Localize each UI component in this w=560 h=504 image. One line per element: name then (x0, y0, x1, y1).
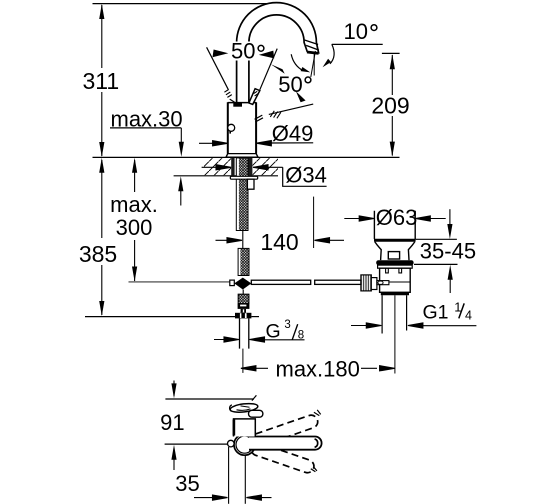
body bottom thick bar (381, 292, 409, 295)
dim 209 arrow up (390, 54, 395, 69)
max.30 lower leader tail (180, 190, 182, 206)
upper dashed swung spout (249, 413, 319, 448)
countertop bottom line (174, 175, 278, 177)
dim max300 arrow up (132, 158, 137, 173)
lever tip extension line (165, 398, 254, 400)
max.30 leader down (180, 128, 182, 145)
rod clamp diamond (234, 278, 251, 290)
tailpipe right wall (406, 295, 408, 330)
lever angle left arrowhead (213, 50, 229, 58)
dim G1-1/4 slash (459, 303, 464, 318)
shank washer bar right (248, 158, 252, 177)
shank knurl texture (239, 158, 248, 231)
temperature knob circle on body (228, 124, 235, 131)
dim O34 leader jog (283, 167, 327, 186)
dim O49 arrow right (256, 141, 313, 146)
nut slit 2 (245, 313, 247, 318)
svg-text:311: 311 (82, 68, 119, 94)
spout gooseneck outline (237, 3, 319, 102)
svg-text:35-45: 35-45 (420, 238, 476, 263)
spout cap inner line (315, 439, 318, 447)
lever joint black tab (233, 102, 242, 106)
dim O49 arrow left (199, 141, 228, 146)
degree circle (305, 77, 311, 83)
G3/8 nut (235, 313, 251, 319)
aerator band line 1 (305, 40, 319, 45)
dim G1-1/4 arrow left (351, 323, 381, 328)
waste cup bottom thick bar (374, 239, 416, 242)
degree circle (371, 25, 377, 31)
max.30 arrow up below counter (178, 176, 183, 191)
10deg left arc (291, 54, 303, 70)
aerator band line 2 (306, 45, 319, 50)
funnel right side (408, 242, 414, 260)
hose end datum stub right (252, 316, 260, 318)
body base flange (226, 154, 258, 158)
dim 35-45 line lower (449, 278, 451, 293)
dim 35 arrow right (246, 495, 271, 500)
pop-up guide tab (247, 179, 254, 189)
knob lower tick (229, 131, 231, 133)
label max.30 underline (110, 127, 181, 129)
svg-text:3: 3 (284, 319, 290, 331)
lever left hatch dashes (224, 89, 231, 97)
lower tip hatch marks (311, 467, 317, 472)
dim 311 arrow down (99, 142, 104, 157)
lever angle right arrowhead (259, 51, 274, 59)
dim 91 upper line (173, 381, 175, 397)
countertop hatch right block (253, 158, 278, 175)
body mid line (380, 281, 411, 283)
top datum line at spout apex (93, 3, 267, 5)
body notch left (386, 268, 389, 273)
dim G3/8 arrow left (214, 337, 239, 342)
hose stem slot (243, 309, 244, 312)
dim 209 line (391, 55, 393, 156)
nut slit 1 (240, 313, 242, 318)
outlet extension line (313, 197, 315, 248)
dim 35-45 arrow up (448, 265, 453, 280)
dim 209 arrow down (390, 142, 395, 157)
dim max180 arrow left (241, 366, 268, 371)
dim G3/8 arrow right (250, 337, 305, 342)
dim 140 arrow right (315, 238, 345, 243)
dim O34 arrow left (202, 165, 231, 170)
svg-text:max.: max. (110, 192, 158, 217)
lever cap left tab (230, 405, 232, 411)
max.30 arrow down (179, 142, 184, 157)
dim 311 line (101, 5, 103, 156)
svg-text:4: 4 (465, 308, 472, 322)
10deg left arc arrowhead (301, 67, 311, 72)
dim max300 line (134, 160, 136, 281)
spout break dashes (255, 115, 263, 122)
lever left line lower dash (230, 99, 235, 102)
svg-text:G: G (266, 321, 281, 343)
rod level extension line (129, 281, 230, 283)
hose clamp slot (240, 305, 246, 307)
dim 209 top tick (382, 52, 400, 54)
dim 385 line (101, 160, 103, 315)
dim 140 arrow left (216, 238, 243, 243)
svg-text:max.180: max.180 (276, 357, 360, 382)
dim 311 arrow up (99, 4, 104, 19)
plan body rect (234, 419, 256, 437)
body notch right (399, 268, 402, 273)
dim 35 arrow left (194, 495, 228, 500)
svg-text:8: 8 (298, 330, 304, 342)
outlet tilted line (311, 51, 316, 77)
svg-text:140: 140 (260, 229, 298, 255)
dim 91 lower tail (173, 458, 175, 470)
spout axis extension line (165, 443, 228, 445)
hose stem (241, 309, 246, 313)
shank washer bar left (231, 158, 234, 176)
swivel line hatch dashes (270, 111, 281, 119)
dim 35 left extension (228, 447, 230, 504)
dim 35 right extension (244, 455, 246, 503)
lever cap inner line (237, 409, 251, 410)
swivel lower arrowhead (296, 91, 306, 102)
dim 91 arrow up from below (171, 445, 176, 460)
svg-text:50: 50 (278, 72, 302, 97)
dim 35-45 line upper (449, 209, 451, 226)
svg-text:91: 91 (160, 410, 184, 435)
pop-up pin (388, 252, 399, 259)
10deg right arc arrowhead (323, 59, 331, 67)
flange underside band (378, 265, 413, 268)
drain body (380, 268, 411, 292)
pop-up rod upper (242, 231, 244, 249)
svg-text:Ø63: Ø63 (376, 205, 418, 230)
svg-text:Ø34: Ø34 (285, 163, 327, 188)
label clearance box (230, 42, 266, 61)
50 lever angle left line (207, 47, 229, 89)
tailpipe left wall (381, 295, 383, 333)
faucet body (228, 102, 256, 153)
10deg right arc (330, 44, 334, 64)
svg-text:209: 209 (371, 93, 409, 119)
horizontal pop-up rod piece 1 (251, 280, 310, 284)
dim O34 arrow right (253, 165, 283, 170)
solid spout bar (249, 437, 322, 450)
dim 35-45 arrow down (447, 224, 452, 239)
spout outlet mouth (307, 52, 319, 53)
countertop hatch left block (204, 158, 231, 175)
dim 91 arrow down (171, 383, 176, 398)
plan body rect left edge thick (233, 420, 236, 436)
hose end datum line (85, 316, 235, 318)
plan body inner circle (236, 436, 253, 453)
svg-text:G1: G1 (423, 302, 449, 324)
rod clamp white screw (230, 280, 235, 286)
actuator lever eye (378, 281, 383, 284)
lever knob cylinder (249, 410, 263, 417)
dim 385 arrow up (99, 158, 104, 173)
actuator lever bar (377, 281, 389, 285)
actuator knurled knob (361, 275, 371, 291)
degree circle (258, 45, 264, 51)
svg-text:50: 50 (231, 38, 255, 63)
rod below clamp (242, 290, 244, 295)
dim 385 arrow down (99, 301, 104, 316)
plan body outer circle (234, 434, 255, 455)
svg-text:385: 385 (79, 241, 117, 267)
countertop datum line (93, 156, 400, 158)
svg-text:300: 300 (116, 215, 153, 240)
swivel angle lower line (269, 104, 313, 114)
body base line (228, 153, 256, 155)
funnel left side (375, 242, 381, 260)
outlet level line (332, 43, 383, 45)
upper tip hatch marks (314, 410, 321, 416)
under-counter washer (230, 176, 257, 179)
dim 35-45 ref line bottom (414, 263, 458, 265)
dim O63 arrow left (344, 216, 374, 221)
50 lever angle right line (260, 49, 277, 90)
lever cap ellipse (230, 402, 259, 413)
dim G1-1/4 arrow right (408, 323, 477, 328)
supply tube (240, 318, 249, 348)
dim G3/8 slash (292, 324, 298, 340)
supply tube centerline (242, 349, 244, 373)
lower dashed swung spout (249, 441, 315, 475)
horizontal pop-up rod piece 2 (315, 280, 361, 284)
outlet vertical centerline (313, 54, 315, 76)
svg-text:10: 10 (344, 19, 368, 44)
braided hose (238, 294, 249, 303)
lever inner detail (241, 406, 250, 407)
body top edge (228, 102, 256, 104)
dim O63 arrow right (415, 216, 445, 221)
actuator collar (371, 278, 377, 290)
lever hatch dashes (254, 91, 259, 96)
dim max180 arrow right (361, 366, 395, 371)
threaded shank lower section (238, 248, 249, 275)
dim 35-45 ref line top (416, 238, 457, 240)
threaded shank through counter (236, 158, 248, 231)
waste cup walls (374, 211, 415, 239)
pop-up knob circle (228, 440, 235, 447)
hose clamp collar (238, 304, 250, 309)
lever handle outline (249, 89, 260, 105)
svg-text:35: 35 (175, 471, 199, 496)
dim max300 arrow down (132, 267, 137, 282)
lower shank knurl texture (240, 248, 249, 275)
flange black bar (376, 260, 413, 265)
svg-text:Ø49: Ø49 (272, 121, 314, 146)
tailpipe centerline (394, 295, 396, 373)
swivel angle upper arrowhead (271, 64, 285, 74)
extension end tick (252, 395, 257, 400)
